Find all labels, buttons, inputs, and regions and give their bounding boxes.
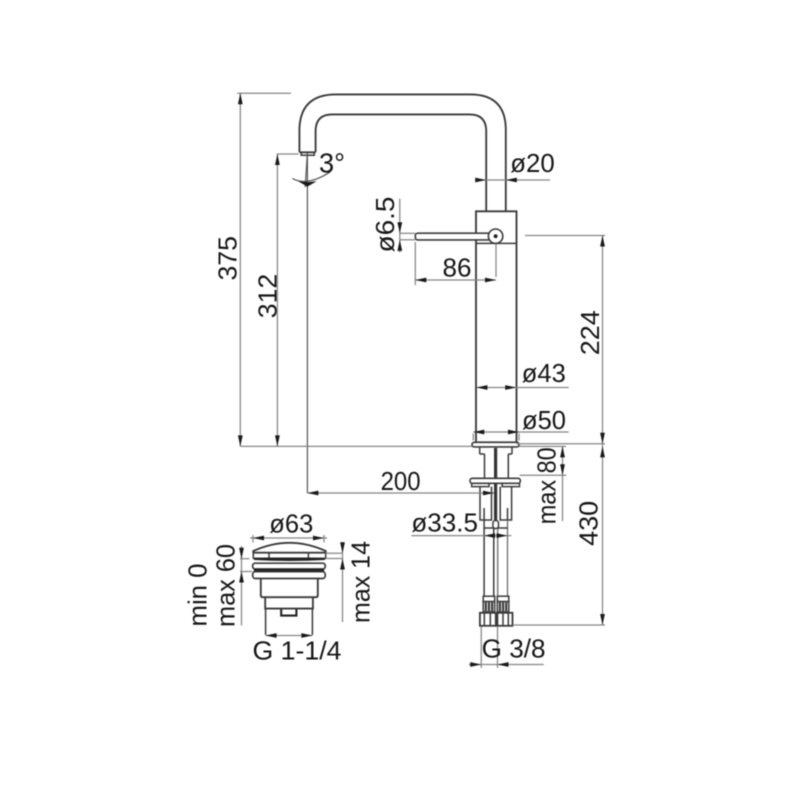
3deg angle arc	[292, 172, 330, 182]
rod edge extension lines	[400, 232, 416, 234]
dim 375 vertical line	[239, 93, 241, 446]
svg-text:375: 375	[213, 236, 243, 281]
svg-text:ø20: ø20	[510, 148, 555, 178]
G3/8 ext lines	[480, 627, 482, 669]
dim G1-1/4 line	[266, 635, 313, 637]
dim o33.5 line	[411, 535, 511, 537]
tick base top	[517, 443, 606, 445]
dim 86 line	[415, 279, 496, 281]
dim G3/8 line	[469, 664, 544, 666]
clamp ring lower	[253, 572, 326, 579]
deck line left of faucet	[240, 445, 472, 447]
dim max14 vertical line	[342, 542, 344, 622]
handle pivot pin circle	[488, 229, 502, 243]
body separation line under handle	[476, 242, 517, 244]
thin seal washer (dark lens)	[254, 558, 325, 560]
spout outlet bottom edge	[299, 151, 315, 153]
3deg tilted axis stub	[305, 153, 307, 187]
right G3/8 nut	[497, 613, 512, 626]
washer tab left	[472, 483, 489, 486]
drain deck band right side	[326, 552, 343, 554]
drain tailpiece G1-1/4	[266, 609, 313, 635]
dim 312 vertical line	[276, 154, 278, 446]
tick max60 level	[240, 571, 252, 573]
svg-text:312: 312	[253, 274, 283, 319]
threaded shank wide part	[480, 447, 512, 454]
svg-text:ø6.5: ø6.5	[370, 197, 400, 253]
right hose crimp fitting	[497, 596, 509, 601]
spout outlet aerator step	[301, 152, 314, 155]
svg-text:max 14: max 14	[346, 541, 376, 623]
drain body	[261, 579, 318, 598]
dim o50 line	[473, 431, 569, 433]
washer tab right	[502, 483, 519, 486]
stud end cap	[493, 521, 499, 529]
left inlet sleeve	[480, 487, 492, 520]
svg-text:ø50: ø50	[522, 405, 566, 435]
right inlet sleeve	[500, 487, 511, 520]
cap rim inner ticks	[269, 554, 308, 558]
svg-text:min 0: min 0	[183, 564, 213, 627]
drain dome cap (ø63)	[253, 543, 325, 553]
clamp ring upper	[253, 563, 326, 569]
shank narrow part	[485, 454, 509, 478]
dim o63 line	[250, 537, 327, 539]
tailpiece notch	[281, 609, 296, 615]
svg-text:430: 430	[574, 501, 604, 546]
svg-text:ø33.5: ø33.5	[411, 508, 478, 538]
svg-text:max 60: max 60	[211, 544, 241, 627]
svg-text:max 80: max 80	[532, 447, 562, 524]
dim 200 line	[307, 492, 494, 494]
top reference tick (spout top)	[237, 92, 291, 94]
rubber gasket (dark)	[254, 569, 324, 572]
faucet body outline	[476, 211, 517, 442]
tick handle axis	[525, 235, 605, 237]
left supply hose	[484, 520, 494, 596]
left hose crimp fitting	[483, 596, 495, 601]
faucet spout outer profile	[299, 94, 505, 211]
dim o43 line	[477, 387, 569, 389]
tick washer level	[520, 474, 567, 476]
svg-text:G 1-1/4: G 1-1/4	[253, 636, 342, 666]
svg-text:ø63: ø63	[269, 509, 313, 539]
deck line right of faucet	[519, 445, 566, 447]
hose top ticks	[484, 527, 507, 529]
dim min0/max60 vertical line	[241, 546, 243, 625]
svg-text:ø43: ø43	[522, 358, 566, 388]
faucet spout inner profile	[316, 114, 487, 211]
mounting washer	[470, 478, 520, 483]
ext line handle end	[414, 242, 416, 285]
ext line pin center	[495, 244, 497, 277]
svg-text:86: 86	[443, 253, 472, 283]
svg-text:200: 200	[381, 466, 421, 496]
right supply hose	[498, 520, 508, 596]
tick at outlet bottom	[277, 153, 299, 155]
tick deck level drain	[240, 558, 249, 560]
dim o6.5 line	[399, 199, 401, 253]
svg-text:G 3/8: G 3/8	[482, 634, 546, 664]
drain mid section	[265, 597, 313, 608]
base flange (ø50)	[472, 442, 519, 447]
dim o20 line	[476, 179, 551, 181]
svg-text:3°: 3°	[319, 148, 345, 179]
central threaded stud	[494, 448, 497, 521]
handle lever rod	[415, 233, 491, 240]
cap rim band	[253, 553, 325, 559]
left G3/8 nut	[480, 613, 496, 626]
dim max80 line	[562, 446, 564, 521]
inner hose lines in sleeves	[484, 508, 507, 520]
dim 224/430 vertical line	[602, 236, 604, 626]
outlet centerline down to 200 dim	[306, 153, 308, 493]
tick hose nuts bottom	[513, 624, 606, 626]
o50 ext stubs	[472, 434, 474, 441]
o63 ext stubs	[252, 535, 254, 543]
svg-text:224: 224	[575, 310, 605, 355]
